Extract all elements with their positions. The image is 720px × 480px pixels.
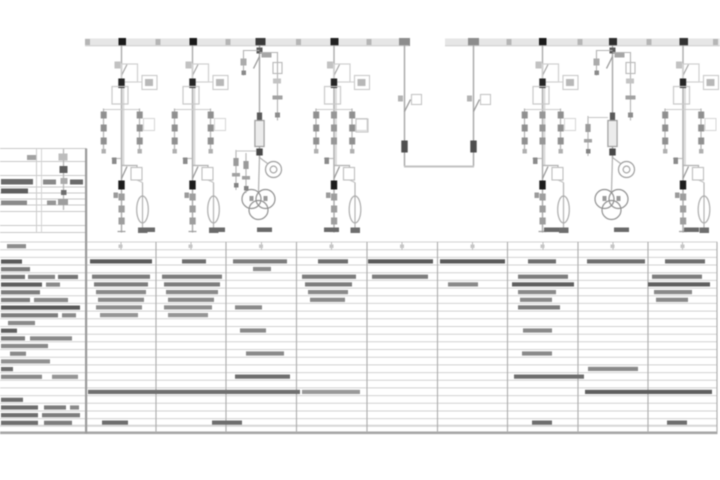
header circuit numbers [119,245,685,249]
bus connection node 3 [256,38,266,46]
legend table frame [0,149,87,233]
table data values [88,259,712,424]
bus phase mark [156,39,161,45]
feeder bay 7 [662,46,718,234]
row header divider [85,149,87,434]
aux box bay4 [356,119,368,132]
bus connection node 1 [119,38,127,46]
header half-column ticks [121,242,683,250]
feeder bay 1 [101,46,157,234]
cable tag label [324,228,339,233]
busbar section I [85,39,409,46]
bus phase mark [647,39,652,45]
busbar section II [445,39,720,46]
CT mid phase bay4 [331,112,337,145]
bus tie tap node left [399,38,410,46]
cable tag label [257,228,272,233]
CT mid phase bay5 [540,112,546,145]
bus connection node 2 [190,38,198,46]
bus edge line II [445,45,720,47]
cable tag label [210,228,225,233]
bus phase mark [578,39,583,45]
feeder bay 2 [172,46,228,234]
arrester link wire F6 [588,117,608,119]
bus phase mark [226,39,231,45]
legend symbol column [58,149,68,210]
surge arrester F3b [242,153,250,193]
data table column lines [156,242,717,433]
bus connection node 4 [331,38,339,46]
bus phase mark [85,39,90,45]
feeder bay 5 [522,46,578,234]
cable tag label [544,228,559,233]
feeder bay 4 [313,46,369,234]
cable tag label [684,228,699,233]
bus connection node 7 [680,38,689,46]
legend table text [1,155,83,205]
surge arrester F3 [232,150,240,190]
PT metering bay 6 [594,46,636,220]
surge arrester F6 [584,116,592,156]
bus connection node 6 [609,38,617,46]
bus phase mark [713,39,718,45]
PT metering bay 3 [241,46,283,220]
data table bottom border [0,432,718,435]
bus phase mark [367,39,372,45]
bus phase mark [507,39,512,45]
bus tie tap node right [468,38,479,46]
bus tie drop right [467,46,491,167]
row header labels [1,244,80,425]
data table row lines [0,242,718,426]
bus tie drop left [398,46,422,167]
bus tie link wire [404,166,474,168]
cable tag label [140,228,155,233]
arrester link wire F3 [236,150,256,152]
cable tag label [614,228,629,233]
bus connection node 5 [539,38,547,46]
bus edge line I [85,45,409,47]
bus phase mark [296,39,301,45]
